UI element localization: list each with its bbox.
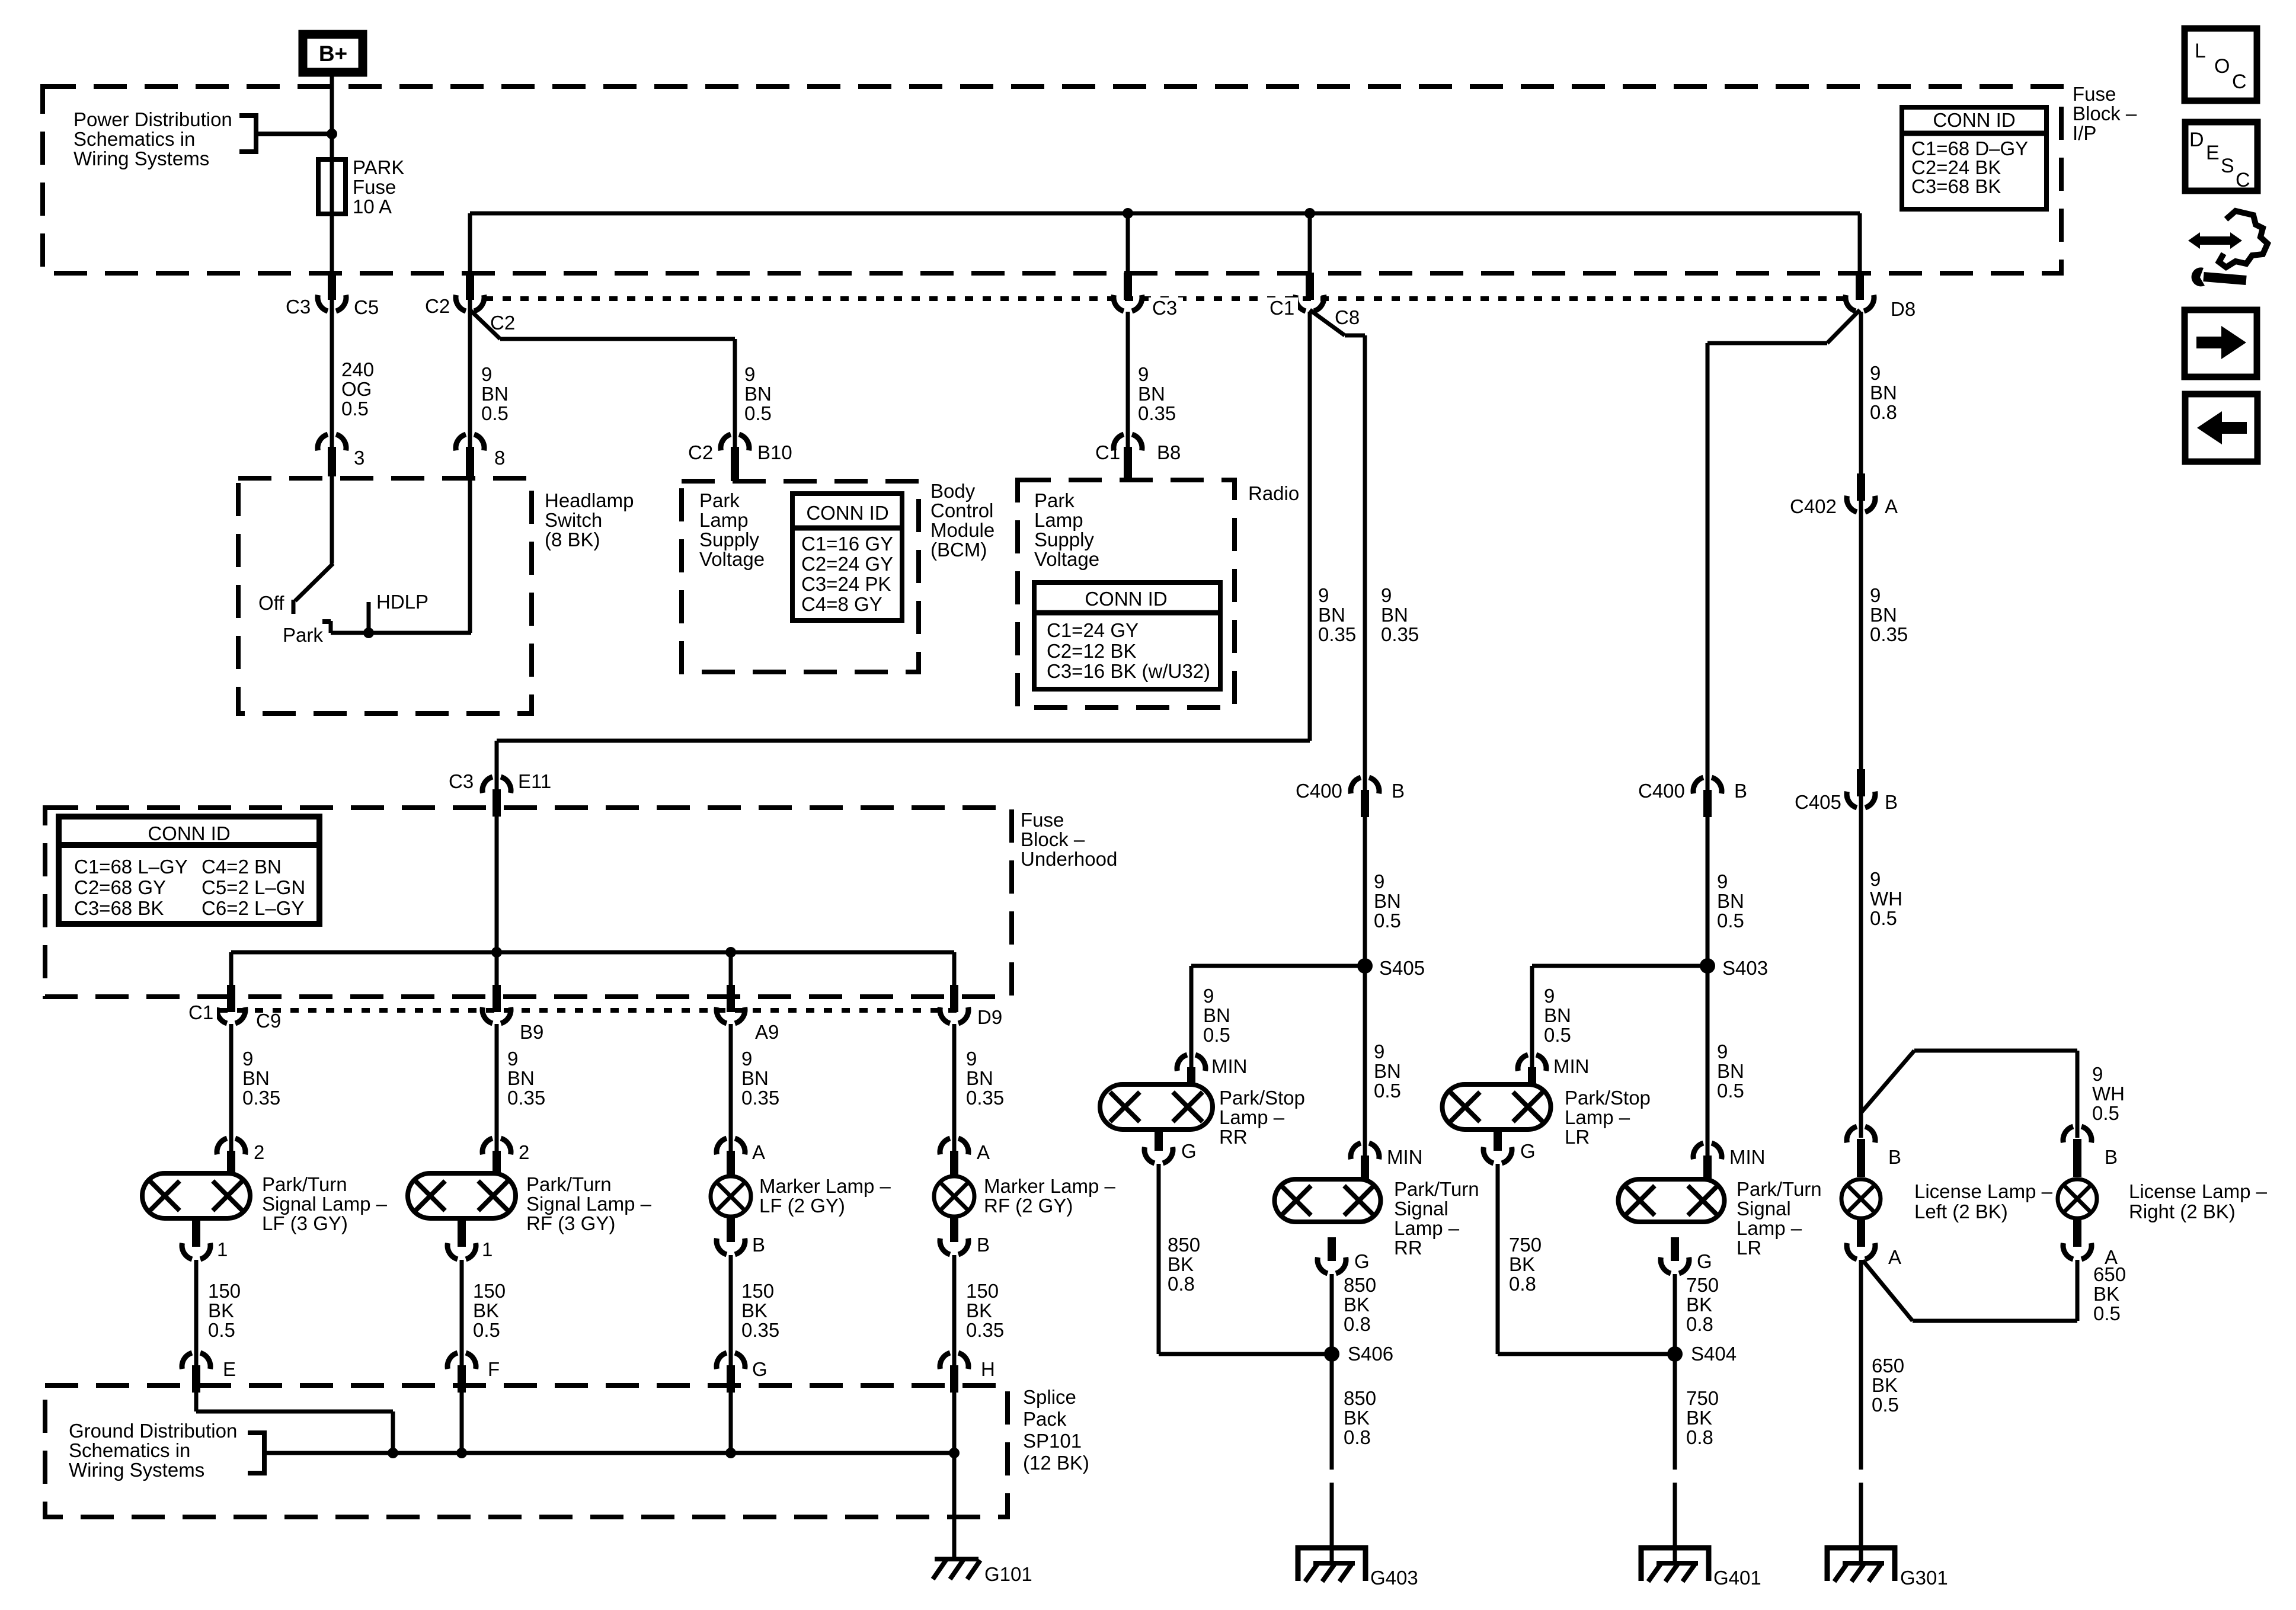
BCM dashed box bbox=[682, 481, 919, 672]
svg-text:LF (3 GY): LF (3 GY) bbox=[262, 1212, 348, 1234]
connector C1/C9 bbox=[185, 985, 281, 1032]
junction dot underhood A9 bbox=[725, 947, 736, 958]
junction dot underhood B9 bbox=[491, 947, 502, 958]
svg-text:BK: BK bbox=[1168, 1253, 1194, 1275]
svg-text:C1: C1 bbox=[1095, 441, 1120, 463]
svg-text:C3=68 BK: C3=68 BK bbox=[74, 897, 164, 919]
svg-text:MIN: MIN bbox=[1387, 1146, 1423, 1168]
svg-text:C400: C400 bbox=[1638, 780, 1685, 802]
svg-text:LF (2 GY): LF (2 GY) bbox=[759, 1195, 845, 1217]
svg-text:C3: C3 bbox=[286, 296, 311, 318]
headlamp switch dashed box bbox=[238, 478, 634, 713]
svg-text:BN: BN bbox=[481, 383, 509, 405]
connector G bbox=[717, 1353, 768, 1393]
license lamp right bbox=[2058, 1179, 2268, 1222]
svg-text:0.35: 0.35 bbox=[1381, 623, 1419, 645]
dotted harness line underhood connectors bbox=[219, 1008, 971, 1013]
svg-text:S403: S403 bbox=[1722, 957, 1768, 979]
svg-text:BN: BN bbox=[1374, 1060, 1401, 1082]
park/stop lamp RR bbox=[1100, 1084, 1305, 1148]
svg-text:750: 750 bbox=[1509, 1234, 1542, 1256]
svg-text:C3=68 BK: C3=68 BK bbox=[1911, 175, 2001, 197]
connector C3/E11 bbox=[449, 770, 551, 817]
svg-text:BN: BN bbox=[507, 1067, 535, 1089]
svg-text:CONN ID: CONN ID bbox=[1933, 109, 2015, 131]
svg-text:G101: G101 bbox=[984, 1563, 1032, 1585]
svg-text:Park: Park bbox=[699, 489, 740, 511]
splice S405 bbox=[1357, 957, 1425, 979]
fuse F PARK 10A bbox=[318, 156, 404, 217]
svg-text:C1=68 L–GY: C1=68 L–GY bbox=[74, 856, 188, 878]
svg-text:0.5: 0.5 bbox=[1717, 1080, 1744, 1102]
radio dashed box bbox=[1018, 480, 1299, 708]
svg-text:Voltage: Voltage bbox=[699, 548, 765, 570]
svg-text:Park/Turn: Park/Turn bbox=[1737, 1178, 1822, 1200]
connector D9 bbox=[940, 985, 1002, 1028]
svg-text:Lamp –: Lamp – bbox=[1565, 1106, 1630, 1128]
wire S403 to park/stop LR bbox=[1532, 966, 1707, 1068]
svg-text:2: 2 bbox=[519, 1141, 529, 1163]
connector C400/B right bbox=[1638, 777, 1747, 817]
wire 850 BK 0.8 to S406 bbox=[1332, 1274, 1376, 1470]
svg-text:D: D bbox=[2189, 129, 2204, 151]
svg-text:Marker Lamp –: Marker Lamp – bbox=[984, 1175, 1116, 1197]
svg-text:Block –: Block – bbox=[2073, 103, 2137, 124]
connector B license right bbox=[2063, 1126, 2118, 1177]
svg-text:BN: BN bbox=[242, 1067, 270, 1089]
svg-text:Park/Turn: Park/Turn bbox=[262, 1173, 347, 1195]
svg-text:9: 9 bbox=[1374, 1041, 1384, 1062]
svg-text:License Lamp –: License Lamp – bbox=[2129, 1180, 2268, 1202]
wire 150 BK 0.5 RF bbox=[462, 1260, 506, 1366]
svg-text:0.5: 0.5 bbox=[481, 402, 509, 424]
connector H bbox=[940, 1353, 995, 1393]
svg-text:Underhood: Underhood bbox=[1021, 848, 1117, 870]
svg-text:D9: D9 bbox=[977, 1006, 1002, 1028]
junction dot E bbox=[388, 1448, 398, 1458]
svg-text:C1=24 GY: C1=24 GY bbox=[1047, 619, 1139, 641]
svg-text:G: G bbox=[1697, 1250, 1712, 1272]
svg-text:OG: OG bbox=[341, 378, 372, 400]
svg-text:150: 150 bbox=[473, 1280, 506, 1302]
splice S403 bbox=[1700, 957, 1768, 979]
svg-text:Radio: Radio bbox=[1248, 482, 1299, 504]
connector C1/C8 bbox=[1266, 273, 1360, 328]
connector C2/B10 BCM bbox=[688, 434, 792, 481]
svg-text:C5=2 L–GN: C5=2 L–GN bbox=[202, 876, 305, 898]
svg-text:CONN ID: CONN ID bbox=[148, 822, 230, 844]
connector A license right bbox=[2063, 1218, 2118, 1268]
wire S405 to park/stop RR bbox=[1191, 966, 1365, 1068]
connector 2 park/turn LF bbox=[217, 1138, 264, 1174]
svg-text:WH: WH bbox=[2092, 1083, 2125, 1105]
svg-text:0.35: 0.35 bbox=[1138, 402, 1176, 424]
svg-text:0.8: 0.8 bbox=[1168, 1273, 1195, 1295]
svg-text:Supply: Supply bbox=[1034, 529, 1094, 550]
switch HDLP contact bbox=[363, 591, 428, 638]
svg-text:240: 240 bbox=[341, 359, 374, 380]
svg-text:0.5: 0.5 bbox=[1872, 1394, 1899, 1416]
svg-text:G: G bbox=[752, 1358, 768, 1380]
connector G park/turn LR bbox=[1661, 1237, 1712, 1273]
icon box arrow left bbox=[2185, 394, 2257, 462]
svg-text:CONN ID: CONN ID bbox=[806, 502, 888, 524]
svg-text:MIN: MIN bbox=[1211, 1055, 1248, 1077]
svg-text:0.5: 0.5 bbox=[1870, 907, 1897, 929]
svg-text:Lamp –: Lamp – bbox=[1394, 1217, 1460, 1239]
junction dot power callout bbox=[327, 129, 337, 139]
svg-text:9: 9 bbox=[1870, 868, 1881, 890]
svg-text:9: 9 bbox=[1381, 584, 1392, 606]
svg-text:BK: BK bbox=[966, 1299, 992, 1321]
svg-text:BK: BK bbox=[1872, 1374, 1898, 1396]
connector pin 3 headlamp switch bbox=[318, 434, 364, 476]
connector B license left bbox=[1847, 1126, 1901, 1177]
icon wrench arrow bbox=[2188, 211, 2268, 286]
svg-text:BN: BN bbox=[1203, 1004, 1230, 1026]
power terminal B+ bbox=[303, 34, 363, 72]
svg-text:Park: Park bbox=[1034, 489, 1075, 511]
label Park Lamp Supply Voltage radio bbox=[1034, 489, 1099, 570]
svg-text:BN: BN bbox=[1318, 604, 1345, 626]
svg-text:0.35: 0.35 bbox=[741, 1087, 779, 1109]
svg-text:C2: C2 bbox=[425, 295, 450, 317]
wire 150 BK 0.5 LF bbox=[196, 1260, 241, 1366]
svg-text:C9: C9 bbox=[256, 1010, 281, 1032]
svg-text:BK: BK bbox=[473, 1299, 499, 1321]
svg-text:S404: S404 bbox=[1691, 1343, 1737, 1365]
label Body Control Module BCM bbox=[930, 480, 994, 561]
svg-text:RF (2 GY): RF (2 GY) bbox=[984, 1195, 1073, 1217]
connector MIN park/stop RR bbox=[1177, 1055, 1247, 1089]
svg-text:B: B bbox=[1392, 780, 1405, 802]
wire 9 BN 0.35 RF bbox=[497, 1024, 545, 1152]
svg-text:0.8: 0.8 bbox=[1870, 401, 1897, 423]
connector 1 park/turn LF bbox=[182, 1219, 228, 1260]
svg-text:Block –: Block – bbox=[1021, 828, 1085, 850]
svg-text:Park/Stop: Park/Stop bbox=[1219, 1087, 1305, 1109]
svg-text:0.35: 0.35 bbox=[1870, 623, 1908, 645]
park/stop lamp LR bbox=[1443, 1084, 1651, 1148]
svg-text:150: 150 bbox=[741, 1280, 774, 1302]
icon box DESC bbox=[2185, 122, 2257, 191]
svg-text:D8: D8 bbox=[1891, 298, 1916, 320]
svg-text:B: B bbox=[2105, 1146, 2118, 1168]
wire D8 branch to C400 right bbox=[1707, 310, 1860, 1157]
svg-text:B: B bbox=[1734, 780, 1747, 802]
svg-text:BK: BK bbox=[741, 1299, 768, 1321]
svg-text:RR: RR bbox=[1394, 1237, 1422, 1259]
svg-text:BN: BN bbox=[1870, 604, 1897, 626]
svg-text:0.5: 0.5 bbox=[473, 1319, 500, 1341]
CONN ID table underhood bbox=[59, 817, 319, 924]
svg-text:9: 9 bbox=[741, 1048, 752, 1070]
svg-text:0.8: 0.8 bbox=[1344, 1313, 1371, 1335]
svg-text:F: F bbox=[488, 1358, 500, 1380]
svg-text:9: 9 bbox=[1544, 985, 1555, 1007]
svg-text:Voltage: Voltage bbox=[1034, 548, 1099, 570]
svg-text:BN: BN bbox=[1717, 890, 1744, 912]
svg-text:Right (2 BK): Right (2 BK) bbox=[2129, 1201, 2236, 1222]
svg-text:BK: BK bbox=[1686, 1294, 1712, 1315]
svg-text:(8 BK): (8 BK) bbox=[545, 529, 600, 550]
ground distribution dashed box bbox=[45, 1385, 1008, 1517]
svg-text:0.5: 0.5 bbox=[341, 398, 369, 420]
switch Park contact bbox=[283, 621, 471, 646]
svg-text:9: 9 bbox=[507, 1048, 518, 1070]
park/turn signal lamp LF bbox=[142, 1173, 388, 1234]
svg-text:BN: BN bbox=[1381, 604, 1408, 626]
svg-text:LR: LR bbox=[1565, 1126, 1590, 1148]
svg-text:(BCM): (BCM) bbox=[930, 539, 987, 561]
svg-text:MIN: MIN bbox=[1729, 1146, 1766, 1168]
connector A marker LF bbox=[717, 1138, 765, 1179]
svg-text:PARK: PARK bbox=[353, 156, 404, 178]
connector C1/B8 radio bbox=[1095, 434, 1181, 480]
svg-text:Body: Body bbox=[930, 480, 976, 502]
svg-text:C400: C400 bbox=[1296, 780, 1342, 802]
svg-text:0.8: 0.8 bbox=[1686, 1313, 1713, 1335]
svg-text:9: 9 bbox=[1374, 870, 1384, 892]
svg-text:E: E bbox=[223, 1358, 236, 1380]
svg-text:Marker Lamp –: Marker Lamp – bbox=[759, 1175, 891, 1197]
svg-text:G: G bbox=[1354, 1250, 1370, 1272]
connector C400/B left bbox=[1296, 777, 1405, 817]
wire 9 BN 0.5 S403 to park/turn LR bbox=[1717, 1041, 1744, 1102]
svg-text:MIN: MIN bbox=[1553, 1055, 1590, 1077]
connector D8 bbox=[1846, 273, 1916, 320]
svg-text:G403: G403 bbox=[1370, 1567, 1418, 1589]
svg-text:Signal Lamp –: Signal Lamp – bbox=[262, 1193, 388, 1215]
svg-text:A9: A9 bbox=[755, 1021, 779, 1043]
svg-text:C3: C3 bbox=[449, 770, 474, 792]
svg-text:850: 850 bbox=[1344, 1274, 1376, 1296]
svg-text:9: 9 bbox=[1717, 1041, 1728, 1062]
callout Power Distribution Schematics in Wiring Systems bbox=[73, 108, 332, 169]
svg-text:10 A: 10 A bbox=[353, 196, 392, 217]
svg-text:0.35: 0.35 bbox=[966, 1319, 1004, 1341]
license lamp left bbox=[1841, 1179, 2053, 1222]
wire B+ to fuse and connector C5 bbox=[330, 76, 334, 564]
wire G to ground bus bbox=[729, 1393, 733, 1453]
svg-text:Signal Lamp –: Signal Lamp – bbox=[526, 1193, 652, 1215]
callout Ground Distribution Schematics in Wiring Systems bbox=[69, 1420, 264, 1481]
junction dot bus at C1 bbox=[1304, 208, 1315, 219]
CONN ID table BCM bbox=[792, 494, 902, 620]
fuse block I/P dashed box bbox=[43, 87, 2061, 273]
connector B marker RF bbox=[940, 1215, 990, 1256]
wire 150 BK 0.35 marker LF bbox=[731, 1255, 779, 1366]
svg-text:C405: C405 bbox=[1795, 791, 1841, 813]
svg-text:Park: Park bbox=[283, 624, 323, 646]
wire C8 to fuse block underhood bbox=[497, 312, 1356, 790]
svg-text:Park/Turn: Park/Turn bbox=[1394, 1178, 1479, 1200]
svg-text:C4=8 GY: C4=8 GY bbox=[801, 593, 882, 615]
wire 9 BN 0.35 marker RF bbox=[954, 1024, 1004, 1152]
svg-text:Lamp –: Lamp – bbox=[1219, 1106, 1285, 1128]
svg-text:Signal: Signal bbox=[1394, 1198, 1448, 1219]
svg-text:Lamp –: Lamp – bbox=[1737, 1217, 1802, 1239]
connector 2 park/turn RF bbox=[482, 1138, 529, 1174]
svg-text:9: 9 bbox=[242, 1048, 253, 1070]
svg-text:3: 3 bbox=[354, 447, 364, 469]
wire 9 BN 0.5 S405 to park/turn RR bbox=[1374, 1041, 1401, 1102]
svg-text:C: C bbox=[2232, 71, 2247, 93]
svg-text:BN: BN bbox=[741, 1067, 769, 1089]
svg-text:BN: BN bbox=[1717, 1060, 1744, 1082]
svg-text:C2=12 BK: C2=12 BK bbox=[1047, 640, 1136, 662]
svg-text:LR: LR bbox=[1737, 1237, 1761, 1259]
svg-text:BK: BK bbox=[1344, 1294, 1370, 1315]
wire 850 BK 0.8 park/stop RR bbox=[1159, 1164, 1332, 1354]
svg-text:0.5: 0.5 bbox=[1374, 910, 1401, 932]
wire E to ground bus bbox=[196, 1393, 393, 1453]
svg-text:9: 9 bbox=[1138, 363, 1149, 385]
wire 750 BK 0.8 park/stop LR bbox=[1498, 1164, 1675, 1354]
svg-text:RR: RR bbox=[1219, 1126, 1248, 1148]
svg-text:B8: B8 bbox=[1157, 441, 1181, 463]
label Splice Pack SP101 bbox=[1023, 1386, 1089, 1474]
svg-text:8: 8 bbox=[494, 447, 505, 469]
ground G301 bbox=[1827, 1548, 1948, 1589]
svg-text:BK: BK bbox=[1686, 1407, 1712, 1429]
wire C8 branch to C400 left bbox=[1310, 310, 1419, 1157]
svg-text:Wiring Systems: Wiring Systems bbox=[73, 148, 209, 169]
svg-text:G: G bbox=[1181, 1140, 1197, 1162]
svg-text:Power Distribution: Power Distribution bbox=[73, 108, 232, 130]
svg-text:BN: BN bbox=[1870, 382, 1897, 404]
svg-text:Park/Turn: Park/Turn bbox=[526, 1173, 612, 1195]
connector G park/stop LR bbox=[1483, 1127, 1536, 1163]
wire license right return bbox=[1863, 1260, 2126, 1324]
svg-text:750: 750 bbox=[1686, 1387, 1719, 1409]
svg-text:150: 150 bbox=[966, 1280, 999, 1302]
svg-text:A: A bbox=[977, 1141, 990, 1163]
svg-text:Wiring Systems: Wiring Systems bbox=[69, 1459, 204, 1481]
svg-text:L: L bbox=[2195, 40, 2206, 62]
connector pin 8 headlamp switch bbox=[456, 434, 505, 476]
svg-text:Off: Off bbox=[258, 592, 284, 614]
wire 9 BN 0.5 headlamp switch bbox=[470, 273, 509, 633]
wire F to ground bus bbox=[460, 1393, 464, 1453]
svg-text:C8: C8 bbox=[1335, 306, 1360, 328]
CONN ID table radio bbox=[1034, 582, 1220, 689]
svg-text:E11: E11 bbox=[518, 770, 551, 792]
svg-text:650: 650 bbox=[2093, 1263, 2126, 1285]
wire 750 BK 0.8 to S404 bbox=[1675, 1274, 1719, 1470]
marker lamp LF bbox=[711, 1175, 891, 1217]
svg-text:650: 650 bbox=[1872, 1355, 1904, 1377]
wire 9 BN 0.35 marker LF bbox=[731, 1024, 779, 1152]
svg-text:C2=68 GY: C2=68 GY bbox=[74, 876, 166, 898]
svg-text:Lamp: Lamp bbox=[699, 509, 749, 531]
svg-text:B9: B9 bbox=[520, 1021, 543, 1043]
svg-text:Fuse: Fuse bbox=[1021, 809, 1064, 831]
svg-text:0.8: 0.8 bbox=[1686, 1426, 1713, 1448]
svg-text:9: 9 bbox=[481, 363, 492, 385]
svg-text:Signal: Signal bbox=[1737, 1198, 1791, 1219]
svg-text:Pack: Pack bbox=[1023, 1408, 1067, 1430]
marker lamp RF bbox=[934, 1175, 1116, 1217]
switch blade Off/Park bbox=[258, 564, 333, 614]
svg-text:A: A bbox=[1885, 495, 1898, 517]
svg-text:0.5: 0.5 bbox=[1203, 1024, 1230, 1046]
svg-text:9: 9 bbox=[1870, 584, 1881, 606]
connector C3 radio column bbox=[1114, 273, 1183, 319]
svg-text:1: 1 bbox=[217, 1238, 228, 1260]
main bus from fuse output bbox=[470, 213, 1860, 297]
svg-text:SP101: SP101 bbox=[1023, 1430, 1082, 1452]
svg-text:0.5: 0.5 bbox=[1544, 1024, 1571, 1046]
svg-text:B10: B10 bbox=[757, 441, 792, 463]
svg-text:BN: BN bbox=[1544, 1004, 1571, 1026]
park/turn signal lamp RR bbox=[1275, 1178, 1479, 1259]
svg-text:S: S bbox=[2221, 155, 2234, 177]
svg-text:0.35: 0.35 bbox=[242, 1087, 280, 1109]
svg-text:C5: C5 bbox=[354, 296, 379, 318]
svg-text:CONN ID: CONN ID bbox=[1085, 588, 1167, 610]
connector B9 bbox=[482, 985, 543, 1043]
svg-text:E: E bbox=[2206, 142, 2220, 164]
connector B marker LF bbox=[717, 1215, 765, 1256]
svg-text:C402: C402 bbox=[1790, 495, 1837, 517]
svg-text:9: 9 bbox=[1717, 870, 1728, 892]
ground bus SP101 bbox=[264, 1451, 954, 1455]
connector A license left bbox=[1847, 1218, 1901, 1268]
svg-text:0.5: 0.5 bbox=[2093, 1302, 2121, 1324]
connector C2 fuse block bbox=[425, 273, 515, 334]
connector A marker RF bbox=[940, 1138, 990, 1179]
svg-text:C1=16 GY: C1=16 GY bbox=[801, 533, 893, 555]
svg-text:9: 9 bbox=[2092, 1063, 2103, 1085]
wire branch to license right bbox=[1861, 1051, 2125, 1138]
svg-text:9: 9 bbox=[1318, 584, 1329, 606]
svg-text:HDLP: HDLP bbox=[376, 591, 428, 613]
svg-text:Fuse: Fuse bbox=[2073, 83, 2116, 105]
connector F bbox=[447, 1353, 500, 1393]
svg-text:0.5: 0.5 bbox=[1717, 910, 1744, 932]
svg-text:Lamp: Lamp bbox=[1034, 509, 1083, 531]
svg-text:BK: BK bbox=[1509, 1253, 1535, 1275]
svg-text:B: B bbox=[752, 1234, 765, 1256]
svg-text:850: 850 bbox=[1344, 1387, 1376, 1409]
ground G101 bbox=[933, 1559, 1032, 1585]
wire 9 BN 0.35 LF bbox=[231, 1024, 280, 1152]
svg-text:1: 1 bbox=[482, 1238, 493, 1260]
svg-text:0.5: 0.5 bbox=[1374, 1080, 1401, 1102]
label Fuse Block I/P bbox=[2073, 83, 2137, 144]
svg-text:C6=2 L–GY: C6=2 L–GY bbox=[202, 897, 304, 919]
svg-text:G: G bbox=[1520, 1140, 1536, 1162]
wire 150 BK 0.35 marker RF bbox=[954, 1255, 1004, 1366]
svg-text:Ground Distribution: Ground Distribution bbox=[69, 1420, 237, 1442]
svg-text:0.35: 0.35 bbox=[1318, 623, 1356, 645]
svg-text:S405: S405 bbox=[1379, 957, 1425, 979]
park/turn signal lamp LR bbox=[1619, 1178, 1822, 1259]
connector 1 park/turn RF bbox=[447, 1219, 493, 1260]
svg-text:C4=2 BN: C4=2 BN bbox=[202, 856, 282, 878]
svg-text:B+: B+ bbox=[319, 41, 347, 66]
svg-text:0.35: 0.35 bbox=[507, 1087, 545, 1109]
svg-text:A: A bbox=[1888, 1246, 1901, 1268]
wire 650 BK 0.5 to G301 bbox=[1861, 1260, 1904, 1564]
svg-text:0.8: 0.8 bbox=[1509, 1273, 1536, 1295]
svg-text:C3=16 BK (w/U32): C3=16 BK (w/U32) bbox=[1047, 660, 1210, 682]
connector C3/C5 bbox=[286, 273, 379, 318]
svg-text:S406: S406 bbox=[1348, 1343, 1393, 1365]
wire 9 BN 0.35 radio bbox=[1128, 312, 1176, 448]
svg-text:O: O bbox=[2214, 55, 2230, 78]
